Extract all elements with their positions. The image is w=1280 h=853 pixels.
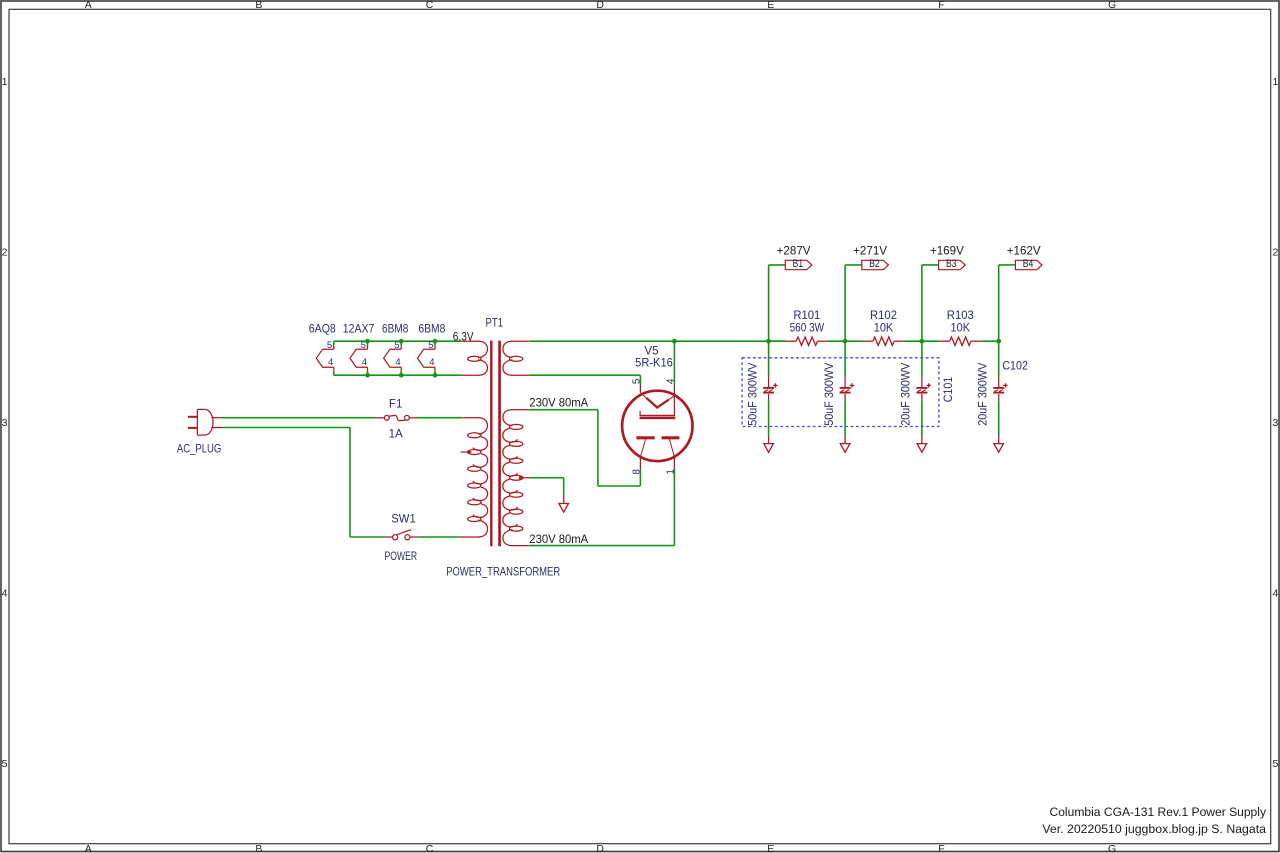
svg-text:B: B (255, 843, 262, 853)
svg-text:G: G (1108, 843, 1116, 853)
wire plug bottom horizontal (223, 427, 351, 429)
border column labels bottom A-G (85, 843, 1116, 853)
transformer rectifier filament winding (right top) (503, 341, 530, 375)
wire heater bottom rail (334, 374, 462, 376)
resistor R102 (863, 337, 905, 345)
heater filament symbol 12AX7 (tube 2) (350, 341, 368, 375)
svg-text:5: 5 (394, 340, 399, 351)
transformer HV secondary winding (right bottom) (503, 410, 529, 546)
wire bottom to switch SW1 (350, 536, 384, 538)
svg-text:Columbia CGA-131 Rev.1 Power: Columbia CGA-131 Rev.1 Power Supply (1050, 805, 1267, 819)
svg-text:+287V: +287V (777, 245, 811, 258)
svg-text:6AQ8: 6AQ8 (309, 322, 336, 335)
wire switch to transformer primary bottom (419, 536, 459, 538)
svg-text:5R-K16: 5R-K16 (635, 356, 673, 369)
wire HV secondary top to vertical (529, 409, 598, 411)
svg-text:A: A (85, 0, 92, 11)
svg-text:+162V: +162V (1007, 245, 1041, 258)
wire rail B2 up to output flag (845, 265, 862, 341)
svg-text:50uF 300WV: 50uF 300WV (746, 362, 759, 425)
dashed group box C101 (742, 358, 939, 427)
wire segment main line R102 left (845, 340, 862, 342)
heater filament symbol 6BM8 (tube 4) (418, 341, 436, 375)
global output flag B4 (1015, 258, 1042, 270)
wire segment main line R102 right (905, 340, 922, 342)
svg-text:R103: R103 (947, 309, 974, 322)
transformer primary winding (left bottom) (459, 418, 487, 537)
heater filament symbol 6BM8 (tube 3) (384, 341, 402, 375)
svg-text:B4: B4 (1023, 258, 1034, 270)
svg-text:230V 80mA: 230V 80mA (529, 397, 588, 410)
svg-text:F: F (938, 843, 944, 853)
tube V5 pin 1 lead (673, 457, 675, 486)
wire plug top to fuse F1 (222, 417, 376, 419)
wire plug bottom vertical down (349, 428, 351, 538)
capacitor C at rail B3 pin top (921, 376, 923, 387)
svg-text:E: E (767, 843, 774, 853)
wire capacitor B1 to ground (768, 400, 770, 436)
svg-text:5: 5 (1272, 758, 1278, 770)
ground symbol at rail B3 (917, 436, 927, 452)
svg-text:C101: C101 (942, 377, 955, 403)
tube V5 pin 8 lead (639, 457, 641, 486)
svg-text:5: 5 (428, 340, 433, 351)
svg-text:R102: R102 (870, 309, 897, 322)
svg-text:4: 4 (362, 357, 367, 368)
svg-text:1A: 1A (389, 428, 403, 441)
border row labels left 1-5 (2, 76, 8, 770)
wire rail B3 up to output flag (922, 265, 939, 341)
resistor R101 (786, 337, 828, 345)
svg-text:E: E (767, 0, 774, 11)
svg-text:B: B (255, 0, 262, 11)
wire vertical up to tube pin 1 (673, 486, 675, 546)
svg-text:2: 2 (2, 246, 8, 258)
transformer 6.3V secondary winding (left top) (462, 341, 488, 375)
capacitor C at rail B1 pin top (768, 376, 770, 387)
svg-text:+169V: +169V (930, 245, 964, 258)
svg-text:5: 5 (2, 758, 8, 770)
heater filament symbol 6AQ8 (tube 1) (316, 341, 334, 375)
svg-text:SW1: SW1 (391, 513, 416, 526)
junction main line at rail B1 (766, 339, 771, 344)
global output flag B1 (785, 258, 812, 270)
svg-text:10K: 10K (874, 321, 894, 334)
svg-text:12AX7: 12AX7 (343, 322, 375, 335)
wire main line down to tube pin 4 (673, 341, 675, 384)
transformer primary tap arrow (461, 450, 473, 454)
svg-text:4: 4 (328, 357, 333, 368)
svg-text:POWER: POWER (385, 550, 418, 563)
wire capacitor B4 to ground (998, 400, 1000, 436)
svg-text:6BM8: 6BM8 (382, 322, 408, 335)
wire rail B1 up to output flag (769, 265, 786, 341)
global output flag B2 (862, 258, 889, 270)
transformer PT1 core bars (490, 341, 492, 547)
wire horizontal to tube pin 8 (598, 485, 641, 487)
capacitor C at rail B2 pin top (844, 376, 846, 387)
wire rail B1 down to capacitor (768, 341, 770, 376)
svg-text:Ver. 20220510 juggbox.blog.jp: Ver. 20220510 juggbox.blog.jp S. Nagata (1042, 822, 1266, 836)
svg-text:4: 4 (1272, 587, 1278, 599)
capacitor 20uF 300WV at rail B4 (993, 383, 1008, 392)
junction heater top rail at 12AX7 (365, 339, 370, 344)
junction heater bottom rail at 12AX7 (365, 373, 370, 378)
capacitor 20uF 300WV at rail B3 (916, 383, 931, 392)
border row labels right 1-5 (1272, 76, 1278, 770)
border column labels top A-G (85, 0, 1116, 11)
wire segment main line R101 right (828, 340, 845, 342)
svg-text:10K: 10K (951, 321, 971, 334)
fuse F1 symbol (376, 415, 417, 420)
AC plug connector P? symbol (188, 409, 223, 435)
wire heater top rail 6.3V (334, 340, 462, 342)
svg-text:6BM8: 6BM8 (418, 322, 445, 335)
svg-text:5: 5 (327, 340, 332, 351)
ground symbol at rail B4 (994, 436, 1004, 452)
capacitor 50uF 300WV at rail B2 (840, 383, 855, 392)
resistor R103 (939, 337, 981, 345)
wire rail B3 down to capacitor (921, 341, 923, 376)
wire segment main line R101 left (769, 340, 786, 342)
svg-text:5: 5 (632, 378, 643, 384)
ground symbol at rail B1 (764, 436, 774, 452)
junction heater top rail at 6BM8 (399, 339, 404, 344)
svg-text:2: 2 (1272, 246, 1278, 258)
svg-text:5: 5 (361, 340, 366, 351)
svg-text:4: 4 (666, 378, 677, 384)
wire HV secondary bottom (529, 545, 675, 547)
svg-text:B2: B2 (869, 258, 880, 270)
wire center tap to ground (521, 478, 564, 496)
junction main line at rail B3 (920, 339, 925, 344)
wire filament winding bottom to tube pin 5 (530, 374, 641, 376)
rectifier tube V5 5R-K16 (622, 391, 692, 461)
capacitor C at rail B4 pin top (998, 376, 1000, 387)
capacitor at rail B4 pin bottom (998, 394, 1000, 400)
tube V5 pin 5 lead (639, 375, 641, 392)
wire rail B4 up to output flag (999, 265, 1016, 341)
capacitor 50uF 300WV at rail B1 (763, 383, 778, 392)
svg-text:50uF 300WV: 50uF 300WV (823, 362, 836, 425)
ground symbol at transformer center tap (559, 496, 569, 512)
svg-text:560 3W: 560 3W (790, 321, 825, 334)
svg-text:20uF 300WV: 20uF 300WV (900, 362, 913, 425)
svg-text:1: 1 (1272, 76, 1278, 88)
global output flag B3 (939, 258, 966, 270)
wire rail B2 down to capacitor (844, 341, 846, 376)
wire main B+ line from filament winding (530, 340, 786, 342)
svg-text:+271V: +271V (853, 245, 887, 258)
svg-text:F: F (938, 0, 944, 11)
svg-text:B3: B3 (946, 258, 957, 270)
svg-text:20uF 300WV: 20uF 300WV (976, 362, 989, 425)
wire capacitor B3 to ground (921, 400, 923, 436)
svg-text:230V 80mA: 230V 80mA (529, 533, 588, 546)
wire capacitor B2 to ground (844, 400, 846, 436)
wire fuse to transformer primary top (417, 417, 462, 419)
svg-text:8: 8 (632, 469, 643, 475)
junction at tube pin 4 column (672, 339, 677, 344)
svg-text:F1: F1 (389, 397, 403, 410)
ground symbol at rail B2 (840, 436, 850, 452)
svg-text:3: 3 (1272, 417, 1278, 429)
tube V5 pin 4 lead (673, 384, 675, 404)
svg-text:POWER_TRANSFORMER: POWER_TRANSFORMER (446, 566, 560, 579)
transformer HV center tap junction (519, 476, 523, 480)
capacitor at rail B1 pin bottom (768, 394, 770, 400)
svg-text:C102: C102 (1002, 359, 1028, 372)
svg-text:D: D (596, 843, 604, 853)
svg-text:4: 4 (2, 587, 8, 599)
svg-text:A: A (85, 843, 92, 853)
svg-text:C: C (426, 843, 434, 853)
svg-text:B1: B1 (793, 258, 804, 270)
junction heater bottom rail at 6BM8 (399, 373, 404, 378)
svg-text:3: 3 (2, 417, 8, 429)
junction heater bottom rail at 6BM8 (433, 373, 438, 378)
svg-text:4: 4 (395, 357, 400, 368)
capacitor at rail B3 pin bottom (921, 394, 923, 400)
svg-text:PT1: PT1 (486, 317, 504, 330)
svg-text:D: D (596, 0, 604, 11)
junction main line at rail B4 (996, 339, 1001, 344)
junction heater top rail at 6BM8 (433, 339, 438, 344)
svg-text:R101: R101 (793, 309, 820, 322)
svg-text:G: G (1108, 0, 1116, 11)
wire rail B4 down to capacitor (998, 341, 1000, 376)
wire segment main line R103 left (922, 340, 939, 342)
svg-text:C: C (426, 0, 434, 11)
switch SW1 symbol (384, 530, 419, 540)
junction main line at rail B2 (843, 339, 848, 344)
capacitor at rail B2 pin bottom (844, 394, 846, 400)
svg-text:4: 4 (429, 357, 434, 368)
svg-text:V5: V5 (644, 344, 658, 357)
wire segment main line R103 right (981, 340, 998, 342)
svg-text:1: 1 (2, 76, 8, 88)
svg-text:1: 1 (666, 469, 677, 475)
svg-text:AC_PLUG: AC_PLUG (177, 442, 221, 455)
wire vertical down to tube pin 8 (597, 410, 599, 486)
